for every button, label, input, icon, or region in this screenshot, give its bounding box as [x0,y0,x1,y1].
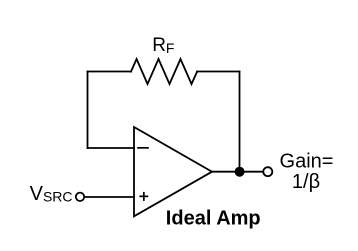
terminal output open circle [263,167,272,176]
svg-text:VSRC: VSRC [30,183,73,205]
wire left vertical rail [87,72,89,149]
op-amp U1 triangle [134,127,212,216]
resistor RF zigzag [131,59,197,84]
svg-text:Ideal Amp: Ideal Amp [166,207,261,229]
svg-text:1/β: 1/β [292,171,320,193]
wire right vertical drop to output node [239,72,241,172]
wire top right segment [197,71,239,73]
node output junction dot [235,167,245,177]
wire feedback left horizontal (inverting input to left rail) [88,147,135,149]
op-amp plus pin label [139,192,148,201]
svg-text:RF: RF [152,35,174,56]
op-amp minus pin label [137,147,149,149]
terminal Vsrc open circle [76,193,84,201]
wire top left segment [88,71,132,73]
svg-text:Gain=: Gain= [280,150,334,172]
wire input (source terminal to non-inverting input) [85,196,134,198]
wire output (apex to terminal) [212,171,263,173]
